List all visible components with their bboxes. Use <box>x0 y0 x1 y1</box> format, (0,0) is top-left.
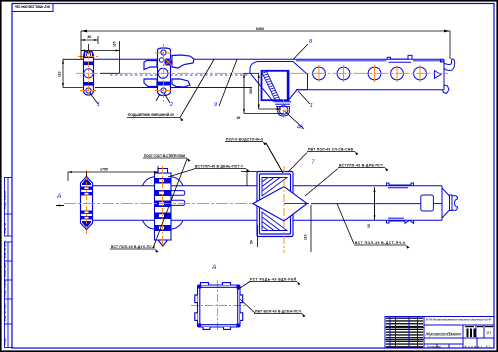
head body top view <box>296 55 455 93</box>
clamp 2 middle view <box>143 177 184 229</box>
svg-text:ЖУ 4591.236.004 СБ: ЖУ 4591.236.004 СБ <box>15 4 51 9</box>
transition piece (pivot bracket) top view <box>250 62 308 102</box>
clamp 2 top view (with lever) <box>144 48 194 96</box>
dim arrowheads <box>62 30 450 114</box>
svg-text:ПСТ РЕДЬ-49 ВДЛ-РЕЙ: ПСТ РЕДЬ-49 ВДЛ-РЕЙ <box>250 278 297 282</box>
end taper middle view <box>421 186 458 220</box>
svg-text:ВСТУПЛ-49 В-ДЕНЬ-ПСТ-Т: ВСТУПЛ-49 В-ДЕНЬ-ПСТ-Т <box>195 165 243 169</box>
cone detail <box>435 71 441 79</box>
svg-text:Инв. № подл.: Инв. № подл. <box>3 302 7 321</box>
svg-text:ПОДШИПНИК ВНЕШНИЙ-09: ПОДШИПНИК ВНЕШНИЙ-09 <box>128 113 174 117</box>
hatch triangles <box>262 178 287 231</box>
svg-text:Копировал: Копировал <box>427 345 441 349</box>
svg-text:15: 15 <box>367 224 371 228</box>
svg-text:115: 115 <box>113 41 117 47</box>
svg-text:ПОСТ ГОСТ В-СТЕПР-ПОМ: ПОСТ ГОСТ В-СТЕПР-ПОМ <box>144 154 185 158</box>
hatched diagonal band <box>262 72 281 101</box>
svg-text:1П: 1П <box>486 331 491 335</box>
left height dim <box>63 58 83 60</box>
svg-text:46: 46 <box>297 125 303 131</box>
square body <box>198 285 241 327</box>
svg-text:Подп. и дата: Подп. и дата <box>3 279 7 297</box>
svg-text:1: 1 <box>310 103 313 109</box>
right hooks <box>444 59 455 71</box>
svg-text:ВСТ ПОЛ-49 В-ДУХ-ПС-9: ВСТ ПОЛ-49 В-ДУХ-ПС-9 <box>111 245 155 249</box>
svg-text:А: А <box>56 193 61 200</box>
svg-text:45: 45 <box>237 116 241 120</box>
labels top view <box>128 113 263 142</box>
leaders middle view <box>153 143 354 248</box>
corner pads <box>198 285 240 326</box>
dim 115 <box>81 50 120 52</box>
svg-text:Подп.: Подп. <box>3 337 7 345</box>
diamond <box>253 187 307 222</box>
overall dim <box>81 30 450 32</box>
svg-text:ВСТ ПОЛ-49 В-ДСТ-ПЧ-9: ВСТ ПОЛ-49 В-ДСТ-ПЧ-9 <box>355 241 405 245</box>
left margin boxes lower <box>5 242 13 348</box>
small step near right end <box>441 59 445 62</box>
link 1 middle view <box>81 177 93 230</box>
svg-text:ПСЛ-9 ВОДСТОЧН-9: ПСЛ-9 ВОДСТОЧН-9 <box>226 138 263 142</box>
svg-text:ЖУМ Механизированные машины ко: ЖУМ Механизированные машины комплекса Nо… <box>426 318 492 322</box>
orange centerlines top view <box>76 44 448 118</box>
svg-text:Формат А1: Формат А1 <box>465 345 491 349</box>
left margin boxes upper <box>5 178 13 237</box>
clamp 1 top view <box>84 51 94 95</box>
leaders + position numbers top view <box>90 44 310 129</box>
svg-text:50: 50 <box>250 240 254 244</box>
A section marker left <box>56 193 61 200</box>
top-left designation stamp <box>12 4 53 12</box>
labels middle view <box>111 148 405 250</box>
svg-text:Жук сов соо обёмент: Жук сов соо обёмент <box>425 332 462 337</box>
svg-text:ПВТ ПОЛ-49 СЛ-СВ-СНВ: ПВТ ПОЛ-49 СЛ-СВ-СНВ <box>308 148 354 152</box>
svg-text:80: 80 <box>88 35 92 39</box>
svg-text:110: 110 <box>58 71 62 77</box>
head holes <box>313 67 427 80</box>
svg-text:ПВТ ВОЛ-49 В-ДСЕН-ПСЧ: ПВТ ВОЛ-49 В-ДСЕН-ПСЧ <box>255 310 302 314</box>
svg-text:6300: 6300 <box>256 27 264 31</box>
beam outline top view <box>82 59 444 87</box>
svg-text:110: 110 <box>304 234 308 240</box>
transition dims <box>243 73 245 113</box>
edge tabs <box>195 283 243 330</box>
beam middle view <box>88 186 442 220</box>
pivot bracket middle view <box>257 172 293 237</box>
svg-text:А: А <box>211 264 216 271</box>
latches middle view <box>387 183 414 223</box>
svg-text:Взам. инв.: Взам. инв. <box>3 262 7 277</box>
leaders A-A <box>237 282 255 314</box>
top tab with slot <box>387 55 413 59</box>
orange centerlines middle view <box>64 166 284 253</box>
orange crosshair <box>191 280 247 332</box>
svg-text:2: 2 <box>169 102 173 108</box>
svg-text:Подп. и дата: Подп. и дата <box>3 191 7 209</box>
svg-text:300: 300 <box>249 88 253 94</box>
dim 80 <box>81 39 98 41</box>
hole crosshairs <box>277 65 420 110</box>
svg-text:8: 8 <box>309 39 312 45</box>
svg-text:Инв. № дубл.: Инв. № дубл. <box>3 239 7 258</box>
thick rectangle <box>262 71 289 100</box>
svg-text:1: 1 <box>97 102 100 108</box>
neck + tip <box>274 102 291 116</box>
left margin rotated texts <box>3 191 7 345</box>
svg-text:1750: 1750 <box>100 168 108 172</box>
svg-text:9: 9 <box>214 102 217 108</box>
title block texts <box>425 318 494 349</box>
svg-text:Инв. №: Инв. № <box>3 222 7 233</box>
title block text stripes (left grid) <box>386 318 423 348</box>
dim texts <box>58 27 265 120</box>
svg-text:ВСТУПЛ-49 В-ДРВ-ПСТ: ВСТУПЛ-49 В-ДРВ-ПСТ <box>339 164 383 168</box>
